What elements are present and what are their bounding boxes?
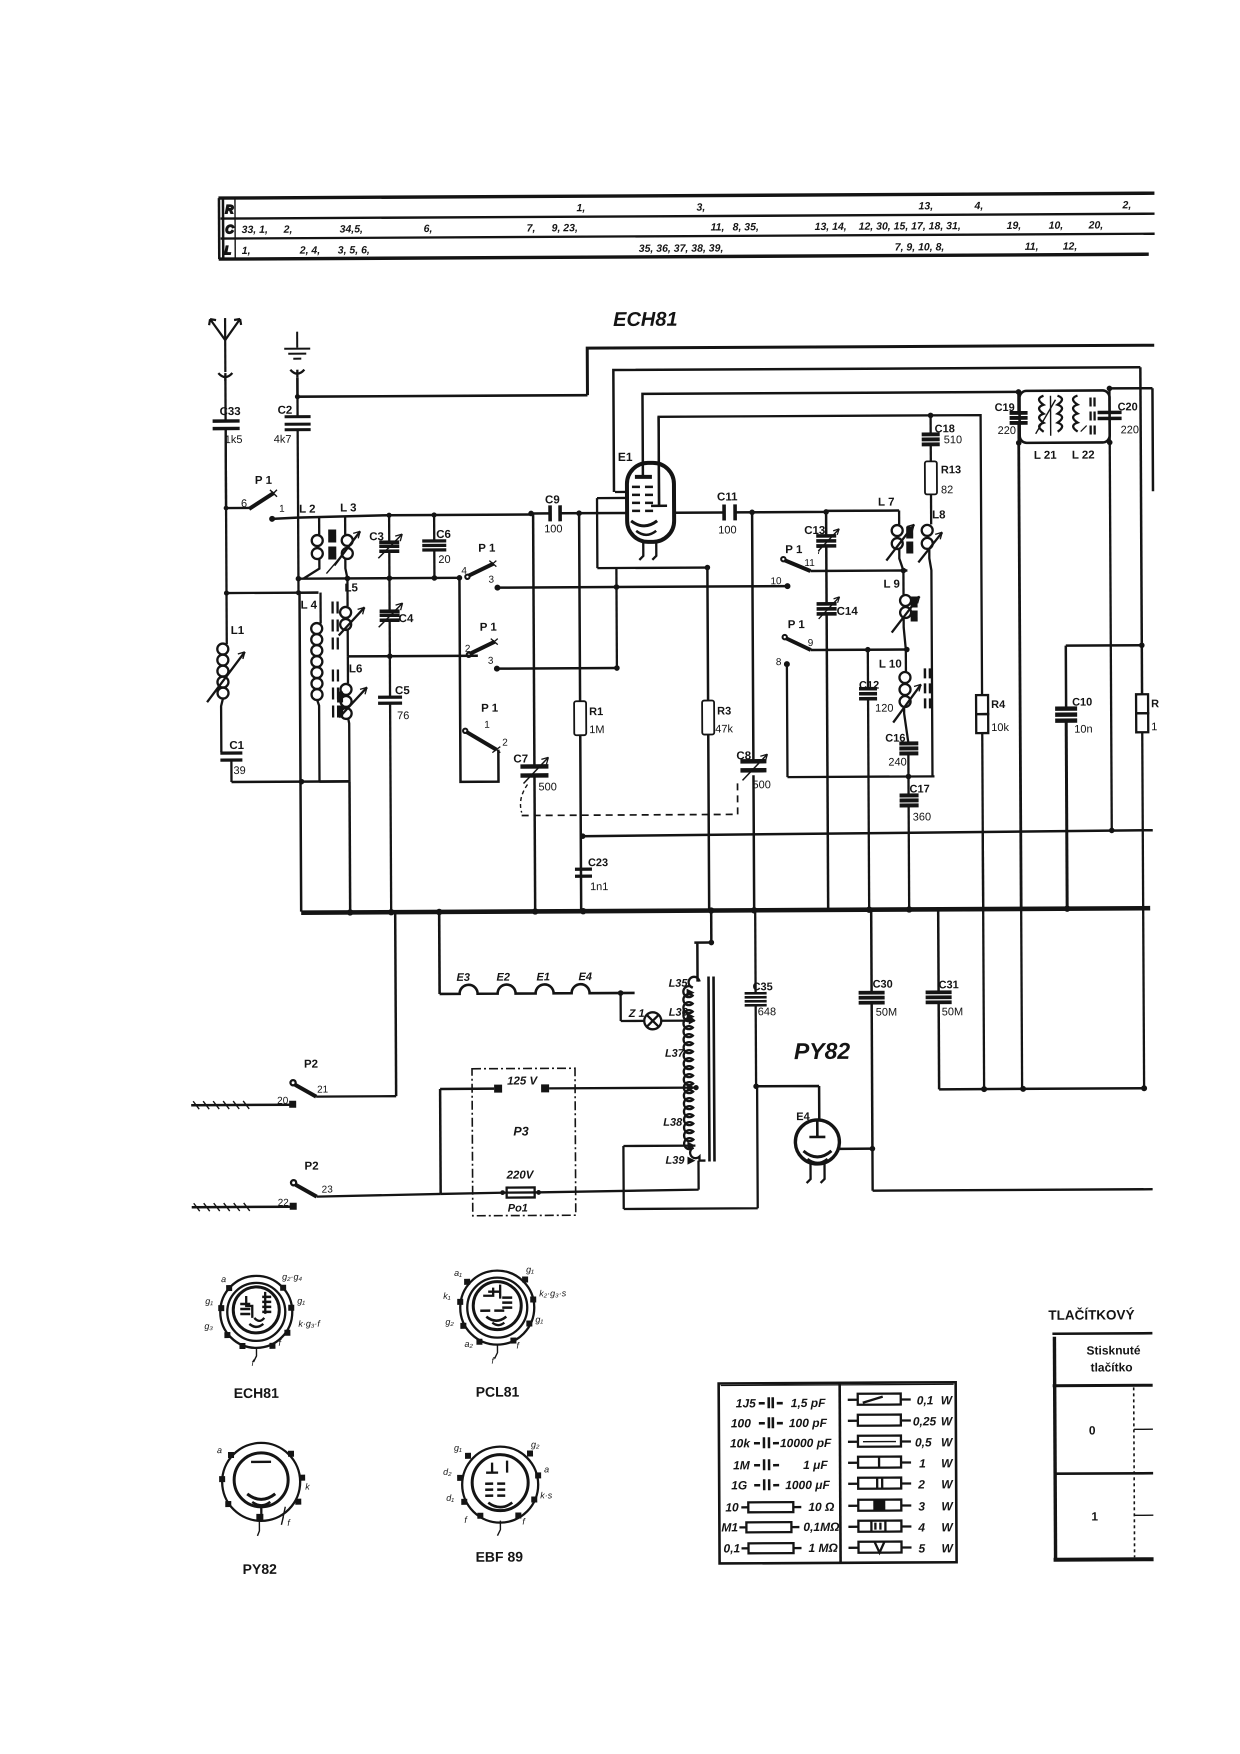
svg-text:E4: E4 (578, 971, 592, 983)
switch P1 contact 1/2 (band 4) (463, 703, 508, 753)
svg-text:R1: R1 (589, 706, 603, 718)
svg-text:C: C (226, 224, 234, 236)
svg-text:g₃: g₃ (204, 1321, 213, 1331)
tube socket diagram ECH81 (204, 1272, 322, 1402)
wire osc grid y668 (497, 667, 617, 670)
wire tuned line y577 (298, 577, 459, 580)
legend wattage row 0,25W (848, 1414, 954, 1429)
switch P1 contact 9 (782, 619, 813, 650)
svg-text:21: 21 (317, 1085, 329, 1096)
transformer core (709, 977, 715, 1162)
svg-text:35, 36, 37, 38, 39,: 35, 36, 37, 38, 39, (639, 242, 724, 254)
wire x1022 below bus (1020, 909, 1023, 1089)
wire plate rail y394 (642, 392, 1018, 463)
svg-text:a: a (217, 1445, 222, 1455)
svg-text:23: 23 (322, 1185, 334, 1196)
svg-text:1: 1 (279, 504, 285, 515)
svg-text:L 22: L 22 (1072, 450, 1095, 462)
switch P1 contact 4/3 (band 2) (461, 543, 500, 591)
svg-text:500: 500 (752, 779, 770, 791)
svg-text:d₁: d₁ (446, 1493, 454, 1503)
svg-text:E1: E1 (536, 971, 550, 983)
voltage selector box P3 (472, 1068, 576, 1216)
svg-text:1M: 1M (589, 724, 604, 736)
svg-text:k·s: k·s (540, 1490, 553, 1500)
svg-text:C11: C11 (717, 491, 738, 503)
svg-text:8, 35,: 8, 35, (733, 221, 759, 233)
wire L4 top to junction (299, 591, 319, 593)
svg-text:L 3: L 3 (340, 502, 356, 514)
svg-text:7, 9, 10, 8,: 7, 9, 10, 8, (895, 241, 945, 253)
svg-text:3: 3 (918, 1499, 925, 1513)
wire x395 bus drop to P2 (394, 912, 397, 1096)
variable capacitor C13 (804, 512, 839, 603)
IF transformer L21/L22 (1019, 390, 1109, 461)
legend capacitor row 1000uF (731, 1478, 830, 1493)
svg-text:g₁: g₁ (526, 1264, 534, 1274)
legend wattage row 0,1W (848, 1393, 954, 1408)
capacitor C9 (544, 494, 563, 535)
svg-text:100: 100 (544, 523, 562, 535)
wire main grid line y513 right part (531, 511, 899, 514)
svg-text:f: f (287, 1518, 291, 1528)
svg-text:2: 2 (502, 738, 508, 749)
core marks L10 (925, 668, 930, 708)
wire band4 link (459, 578, 498, 782)
svg-text:12, 30, 15, 17, 18, 31,: 12, 30, 15, 17, 18, 31, (859, 220, 961, 233)
svg-text:100: 100 (731, 1416, 751, 1430)
wire R3 branch (707, 568, 709, 910)
svg-text:R13: R13 (941, 464, 961, 476)
wire C2 line down to bus (300, 593, 302, 912)
svg-text:k₂·g₃·s: k₂·g₃·s (539, 1288, 567, 1298)
wire 125V tap (440, 1087, 494, 1090)
variable capacitor C4 (378, 578, 414, 656)
component value table frame (218, 193, 1154, 259)
svg-text:E3: E3 (456, 972, 470, 984)
switch P2 contact 23/22 (191, 1160, 440, 1211)
legend wattage row 1W (848, 1456, 954, 1471)
svg-text:f: f (278, 1338, 282, 1348)
svg-text:1: 1 (919, 1456, 926, 1470)
tube E1 triode-heptode (618, 417, 675, 560)
svg-text:1 MΩ: 1 MΩ (808, 1541, 838, 1555)
svg-text:220: 220 (1121, 424, 1139, 436)
legend wattage row 2W (848, 1477, 954, 1492)
svg-text:PY82: PY82 (794, 1038, 851, 1064)
svg-text:120: 120 (875, 703, 893, 715)
svg-text:1000 μF: 1000 μF (785, 1478, 830, 1492)
svg-text:9: 9 (808, 638, 814, 649)
capacitor C5 (378, 656, 412, 911)
svg-text:f: f (516, 1341, 520, 1351)
svg-text:0,25: 0,25 (913, 1414, 937, 1428)
variable capacitor C3 (369, 515, 402, 578)
svg-text:0,1MΩ: 0,1MΩ (803, 1520, 840, 1534)
svg-text:P3: P3 (513, 1124, 528, 1138)
capacitor C20 (1097, 388, 1139, 442)
svg-text:L39: L39 (665, 1155, 685, 1167)
svg-text:3,: 3, (696, 202, 705, 214)
svg-text:2,: 2, (1121, 199, 1131, 211)
svg-text:L 2: L 2 (299, 504, 315, 516)
wire L6 bottom to y780 (319, 780, 349, 783)
svg-text:W: W (941, 1477, 954, 1491)
antenna plug connector (218, 373, 232, 381)
svg-text:12,: 12, (1063, 241, 1078, 253)
capacitor C30 (858, 910, 898, 1149)
variable capacitor C14 (817, 597, 859, 650)
table row L values (242, 241, 1078, 257)
coil L9 with arrow (883, 570, 919, 649)
main bus (chassis) y910 (301, 908, 1150, 912)
legend box frame (719, 1382, 957, 1563)
svg-text:6,: 6, (424, 223, 433, 235)
wire top right drop x1143 (1140, 367, 1141, 645)
svg-text:50M: 50M (942, 1006, 963, 1018)
wire heater feed from bus x439 (438, 912, 441, 994)
svg-text:220V: 220V (506, 1169, 535, 1181)
coil L8 (918, 494, 948, 776)
tube socket diagram PY82 (217, 1443, 311, 1577)
svg-text:39: 39 (233, 765, 245, 777)
pushbutton table header Stisknute tlacitko (1086, 1343, 1140, 1374)
svg-text:g₂·g₄: g₂·g₄ (282, 1272, 302, 1282)
svg-text:10: 10 (725, 1500, 739, 1514)
svg-text:P 1: P 1 (255, 475, 273, 487)
svg-text:360: 360 (913, 811, 931, 823)
svg-text:1,: 1, (242, 245, 251, 257)
tube socket diagram EBF89 (443, 1439, 553, 1565)
svg-text:TLAČÍTKOVÝ: TLAČÍTKOVÝ (1048, 1307, 1134, 1322)
node junction antenna/P1 (224, 506, 229, 511)
svg-text:tlačítko: tlačítko (1091, 1360, 1133, 1374)
svg-text:g₂: g₂ (531, 1439, 540, 1449)
svg-text:C30: C30 (873, 979, 893, 991)
svg-text:P2: P2 (304, 1161, 318, 1173)
wire screen rail y370 (613, 367, 1141, 492)
svg-text:13, 14,: 13, 14, (815, 221, 847, 233)
table row C values (242, 219, 1104, 236)
svg-text:L35: L35 (669, 978, 689, 990)
wire antenna vertical to L1 (224, 429, 227, 593)
capacitor C10 (1055, 697, 1093, 908)
svg-text:100: 100 (718, 524, 736, 536)
capacitor C16 (885, 732, 918, 776)
legend wattage row 4W (848, 1520, 954, 1535)
coil L4 (301, 593, 323, 782)
wire oscillator line y655 (348, 654, 478, 657)
node junction at ground wire (295, 394, 300, 399)
legend resistor row 1Mohm (723, 1541, 838, 1556)
capacitor C6 (422, 515, 451, 578)
svg-text:20: 20 (438, 554, 450, 566)
capacitor C1 (220, 740, 245, 782)
svg-text:8: 8 (776, 657, 782, 668)
coil L5 with arrow (338, 578, 364, 656)
wire mixer grid y587 (497, 586, 787, 588)
svg-text:2: 2 (917, 1477, 925, 1491)
svg-text:L 4: L 4 (301, 600, 318, 612)
transformer core L7/L8 (906, 526, 913, 538)
svg-text:a₂: a₂ (464, 1339, 473, 1349)
svg-text:g₂: g₂ (445, 1317, 454, 1327)
capacitor C19 (994, 392, 1027, 443)
wire L7 bottom y572 junction (901, 568, 907, 574)
switch P1 wave-band contact 6 (226, 475, 285, 522)
fuse Po1 (440, 1161, 705, 1198)
ground symbol (284, 332, 310, 359)
svg-text:L36: L36 (669, 1007, 689, 1019)
wire L21 down x1021 (1019, 443, 1021, 908)
switch P1 contact 11 (IF) (781, 544, 815, 571)
ground plug connector (290, 370, 304, 378)
svg-text:C6: C6 (436, 529, 451, 541)
svg-text:R: R (225, 204, 233, 216)
svg-text:4k7: 4k7 (274, 434, 292, 446)
svg-text:W: W (941, 1435, 954, 1449)
wire P2 voltage link x439 (439, 1089, 442, 1194)
svg-text:W: W (941, 1414, 954, 1428)
svg-text:240: 240 (888, 756, 906, 768)
svg-text:20,: 20, (1088, 219, 1104, 231)
capacitor C17 (899, 776, 931, 908)
svg-text:P 1: P 1 (481, 703, 499, 715)
legend resistor row 10ohm (725, 1500, 835, 1515)
svg-text:0,1: 0,1 (723, 1541, 740, 1555)
svg-text:2,: 2, (283, 224, 293, 236)
svg-text:R: R (1151, 698, 1159, 710)
svg-text:47k: 47k (715, 723, 733, 735)
wire B+ top rail (587, 345, 1154, 395)
svg-text:L 9: L 9 (883, 579, 899, 591)
svg-text:1: 1 (484, 720, 490, 731)
svg-text:k·g₃·f: k·g₃·f (298, 1319, 321, 1329)
wire x828 IF drop to bus (827, 650, 828, 910)
legend wattage row 3W (848, 1499, 954, 1514)
svg-text:50M: 50M (876, 1007, 897, 1019)
wire bottom link y780 (231, 780, 349, 783)
wire ground to B+ riser (297, 376, 587, 397)
tube socket diagram PCL81 (443, 1264, 567, 1400)
svg-text:82: 82 (941, 484, 953, 496)
svg-text:1k5: 1k5 (225, 434, 243, 446)
svg-text:a: a (544, 1464, 549, 1474)
coil L7 with core arrow (878, 496, 914, 570)
svg-text:19,: 19, (1007, 220, 1022, 232)
svg-text:R4: R4 (991, 699, 1006, 711)
wire grid box around E1 (597, 492, 707, 569)
legend capacitor row 10000pF (730, 1436, 832, 1451)
variable capacitor C8 (736, 750, 771, 791)
pushbutton table frame (1052, 1333, 1153, 1560)
switch P1 contact 2/3 (band 3) (465, 622, 500, 672)
legend resistor row 0,1Mohm (721, 1520, 840, 1535)
svg-text:1G: 1G (731, 1478, 747, 1492)
svg-text:3, 5, 6,: 3, 5, 6, (338, 244, 370, 256)
power transformer primary windings (683, 943, 712, 1161)
svg-text:1J5: 1J5 (736, 1396, 756, 1410)
legend wattage row 0,5W (848, 1435, 954, 1450)
capacitor C23 (575, 857, 609, 893)
svg-text:a: a (221, 1274, 226, 1284)
wire rectifier plate feed (756, 1086, 819, 1121)
variable capacitor C7 (512, 513, 557, 910)
svg-text:W: W (941, 1456, 954, 1470)
svg-text:4: 4 (917, 1520, 925, 1534)
svg-text:0,1: 0,1 (917, 1393, 934, 1407)
svg-text:C2: C2 (278, 405, 293, 417)
svg-text:125 V: 125 V (507, 1075, 538, 1087)
svg-text:C4: C4 (399, 613, 414, 625)
svg-text:Po1: Po1 (508, 1202, 528, 1214)
svg-text:10 Ω: 10 Ω (808, 1500, 835, 1514)
svg-text:10k: 10k (730, 1436, 751, 1450)
lamp Z1 (621, 993, 696, 1030)
wire B+ distribution y1091 (939, 1088, 1144, 1089)
resistor R4 (976, 695, 1011, 1089)
svg-text:k₁: k₁ (443, 1291, 451, 1301)
svg-text:10k: 10k (991, 722, 1009, 734)
svg-text:C33: C33 (220, 406, 241, 418)
svg-text:220: 220 (998, 425, 1016, 437)
svg-text:5: 5 (918, 1541, 925, 1555)
svg-text:L37: L37 (665, 1048, 685, 1060)
legend capacitor row 100pF (731, 1416, 828, 1431)
wire grid3 rail y417 (659, 415, 982, 697)
wire HT negative return (872, 1147, 1152, 1190)
wire R1 branch (579, 513, 581, 910)
svg-text:11: 11 (804, 558, 815, 569)
svg-text:1n1: 1n1 (590, 881, 608, 893)
wire x983 below y833 (982, 831, 985, 909)
wire L22 down x1112 (1110, 442, 1112, 830)
capacitor C12 (859, 650, 895, 909)
svg-text:3: 3 (488, 656, 494, 667)
dashed AVC link (520, 784, 527, 812)
coil L6 with arrow (337, 656, 368, 781)
svg-text:g₁: g₁ (205, 1296, 213, 1306)
wire top rail corner x1155 (1109, 388, 1153, 491)
svg-text:C23: C23 (588, 857, 608, 869)
wire y651 to L9/L10 (811, 648, 907, 651)
svg-text:11,: 11, (1025, 241, 1039, 253)
legend capacitor row 1uF (733, 1458, 828, 1472)
capacitor C31 (925, 909, 963, 1089)
resistor R5 (1136, 645, 1161, 1088)
svg-text:C9: C9 (545, 494, 560, 506)
svg-text:g₁: g₁ (454, 1443, 462, 1453)
wire L6 line down to bus (348, 781, 351, 911)
legend capacitor row 1,5pF (736, 1396, 826, 1410)
wire C10 branch y648 (1066, 645, 1142, 707)
capacitor C35 (744, 910, 776, 1086)
svg-text:P 1: P 1 (788, 619, 806, 631)
resistor R13 (925, 461, 961, 496)
svg-text:1M: 1M (733, 1458, 751, 1472)
svg-text:f: f (464, 1515, 468, 1525)
node transformer top to bus (709, 940, 715, 946)
svg-text:W: W (941, 1499, 954, 1513)
wire 125V middle tap junction (693, 1085, 698, 1090)
table row R values (576, 199, 1131, 214)
svg-text:0,5: 0,5 (915, 1435, 932, 1449)
wire AF line y836 (581, 830, 1153, 836)
svg-text:d₂: d₂ (443, 1467, 452, 1477)
svg-text:L: L (225, 245, 231, 257)
svg-text:P 1: P 1 (480, 622, 498, 634)
transformer L2/L3 (299, 502, 360, 578)
svg-text:E2: E2 (496, 972, 510, 984)
svg-text:E1: E1 (618, 450, 633, 464)
svg-text:10000 pF: 10000 pF (780, 1436, 832, 1450)
svg-text:0: 0 (1089, 1424, 1096, 1438)
svg-text:W: W (941, 1520, 954, 1534)
svg-text:C31: C31 (939, 979, 959, 991)
svg-text:1 μF: 1 μF (803, 1458, 828, 1472)
coil L1 with tuning arrow (207, 593, 246, 752)
svg-text:Stisknuté: Stisknuté (1086, 1343, 1140, 1357)
capacitor C2 (273, 397, 311, 593)
svg-text:10: 10 (770, 576, 782, 587)
svg-text:L 10: L 10 (879, 659, 902, 671)
svg-text:1,: 1, (576, 202, 585, 214)
wire y572 to L7 (810, 569, 907, 572)
coil L10 with arrow (879, 649, 921, 742)
svg-text:W: W (941, 1393, 954, 1407)
svg-text:L6: L6 (349, 663, 362, 675)
svg-text:L1: L1 (231, 625, 245, 637)
svg-text:L38: L38 (663, 1117, 683, 1129)
svg-text:1,5 pF: 1,5 pF (791, 1396, 826, 1410)
capacitor C33 (212, 378, 242, 507)
svg-text:510: 510 (944, 434, 962, 446)
svg-text:PCL81: PCL81 (476, 1384, 520, 1400)
switch P2 contact 21/20 (191, 1058, 396, 1109)
svg-text:L 21: L 21 (1034, 450, 1057, 462)
svg-text:Z 1: Z 1 (628, 1008, 645, 1020)
svg-text:g₁: g₁ (297, 1296, 305, 1306)
svg-text:4,: 4, (973, 200, 983, 212)
svg-text:100 pF: 100 pF (789, 1416, 828, 1430)
wire node8 to y778 (787, 663, 935, 777)
antenna (209, 318, 241, 372)
svg-text:P 1: P 1 (478, 543, 496, 555)
svg-text:a₁: a₁ (454, 1268, 462, 1278)
svg-text:g₁: g₁ (535, 1314, 543, 1324)
svg-text:EBF 89: EBF 89 (476, 1549, 524, 1565)
wire L38 tap loop (623, 1086, 758, 1209)
tube E4 rectifier PY82 (795, 1111, 872, 1183)
svg-text:3: 3 (488, 575, 494, 586)
svg-text:ECH81: ECH81 (613, 309, 678, 331)
svg-text:L8: L8 (932, 509, 946, 521)
capacitor C11 (717, 491, 738, 536)
svg-text:13,: 13, (918, 200, 933, 212)
svg-text:C5: C5 (395, 685, 410, 697)
resistor R3 (702, 700, 733, 735)
svg-text:P2: P2 (304, 1059, 318, 1071)
svg-text:C1: C1 (229, 740, 244, 752)
wire C8 branch (752, 512, 754, 909)
bus junction nodes (347, 909, 353, 915)
wire main grid line y514 (272, 514, 531, 518)
svg-text:ECH81: ECH81 (234, 1385, 279, 1401)
svg-text:C7: C7 (513, 753, 528, 765)
svg-text:34,5,: 34,5, (340, 223, 363, 235)
svg-text:M1: M1 (721, 1520, 738, 1534)
svg-text:10,: 10, (1049, 220, 1064, 232)
